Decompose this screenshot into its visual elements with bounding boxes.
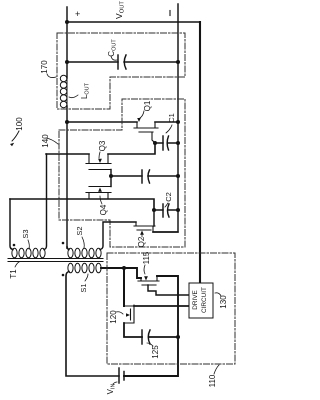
label minus [169,11,171,16]
leader 130 [215,293,221,296]
wire Q3 to C1 node [108,145,155,154]
leader 120 arrow [116,312,123,314]
svg-text:CIRCUIT: CIRCUIT [201,287,208,313]
svg-text:Q2: Q2 [137,236,146,247]
node clamp return [176,335,180,339]
leader Q2 arrow [141,234,143,237]
label VOUT [114,1,126,19]
capacitor C1 [155,136,178,150]
wire S1 right to switch node [101,268,141,278]
label DRIVE CIRCUIT [192,287,208,313]
label Q1 [143,100,152,111]
leader S3 [28,240,29,249]
wire drive input b [134,305,188,307]
battery VIN [119,368,124,383]
svg-text:COUT: COUT [107,39,118,57]
wire S3 to Q3 [46,153,89,155]
wire S3 return to Q4 and C2 [10,199,154,210]
svg-text:T1: T1 [9,269,18,279]
label 120 [109,310,118,324]
svg-text:Q4: Q4 [99,204,108,215]
node Cout plus [65,60,69,64]
wire drive sense line [199,22,201,283]
wire top output link [67,21,200,23]
wire S1 left leg to Vin [66,272,119,377]
leader 110 [214,365,219,374]
label plus [75,9,80,19]
wire negative output rail [153,4,178,232]
leader C1 [166,125,172,133]
inductor LOUT [60,74,67,108]
winding S2 [68,248,101,258]
capacitor gate coupling [111,170,178,183]
label S2 [75,226,84,235]
label Q2 [137,236,146,247]
svg-text:LOUT: LOUT [80,82,91,99]
label 100 [15,117,24,131]
transistor 120 [124,305,134,323]
svg-text:140: 140 [41,134,50,148]
label Q3 [98,140,107,151]
node C1 left [153,141,157,145]
node Cout minus [176,60,180,64]
capacitor C2 [154,204,178,217]
svg-text:DRIVE: DRIVE [192,290,199,310]
leader Q3 arrow [99,152,100,158]
leader 140 [46,138,58,144]
leader C2 [165,203,168,207]
box 140 dash-dot rectifier [59,99,185,247]
svg-text:VOUT: VOUT [114,1,126,19]
node S1 phase dot [62,274,65,277]
capacitor COUT [67,55,178,69]
label 110 [208,374,217,387]
label C1 [167,113,176,123]
svg-text:C1: C1 [167,113,176,123]
wire 115 gate to drive [148,285,188,295]
wire Q1 source [155,121,178,123]
label Q4 [99,204,108,215]
svg-text:C2: C2 [164,192,173,202]
transistor Q2 [134,222,155,232]
wire Q1 drain [67,121,137,123]
leader 100 arrow [12,131,19,141]
winding S1 [68,263,101,273]
wire Q3 Q4 gate link [110,170,112,187]
svg-text:S1: S1 [79,283,88,292]
svg-text:100: 100 [15,117,24,131]
leader 115 arrow [144,265,145,274]
leader S2 [82,237,84,248]
wire clamp cap link [124,323,178,337]
label C2 [164,192,173,202]
node C2 rail [176,208,180,212]
label S3 [21,229,30,238]
leader VIN [113,382,117,384]
svg-text:VIN: VIN [106,384,117,395]
svg-text:+: + [75,9,80,19]
svg-text:170: 170 [40,60,49,74]
node C2 left [152,208,156,212]
transistor 115 [138,277,159,285]
transistor Q1 [134,122,158,143]
label T1 [9,269,18,279]
wire S3 right leg [44,154,47,250]
svg-text:S3: S3 [21,229,30,238]
leader Q4 arrow [100,196,102,204]
label VIN [106,384,117,395]
wire S3 left leg [10,199,13,250]
leader LOUT [69,95,78,98]
leader 170 [47,74,56,78]
wire S2 to Q2 [100,222,136,250]
svg-text:Q3: Q3 [98,140,107,151]
label LOUT [80,82,91,99]
wire C2 node to Q2 [153,210,155,226]
leader S1 [85,274,88,281]
winding S3 [12,248,45,258]
svg-text:110: 110 [208,374,217,387]
node S2 phase dot [62,242,65,245]
label 125 [151,345,160,359]
svg-text:Q1: Q1 [143,100,152,111]
svg-text:130: 130 [219,295,228,309]
wire positive output rail [66,7,68,248]
node gate cap [109,174,113,178]
node rectifier top right [176,120,180,124]
node S3 phase dot [13,244,16,247]
transformer core [8,259,103,262]
transistor Q4 [86,187,111,200]
label S1 [79,283,88,292]
label 130 [219,295,228,309]
svg-text:125: 125 [151,345,160,359]
leader T1 [15,262,19,267]
label COUT [107,39,118,57]
label 115 [142,251,151,264]
transistor Q3 [86,154,111,170]
wire clamp branch down [123,268,125,306]
node clamp branch [122,266,126,270]
wire S2 left leg riser [67,246,69,250]
leader COUT [111,56,117,60]
node gate cap rail [176,174,180,178]
leader 125 [147,343,153,346]
capacitor 125 [142,330,150,344]
drive circuit U130 box [189,283,213,318]
wire 115 source down [124,276,178,376]
leader Q1 arrow [140,111,144,118]
box 110 dash-dot input stage [107,253,235,364]
label 170 [40,60,49,74]
node plus terminal [65,20,69,24]
node C1 right rail [176,141,180,145]
svg-text:S2: S2 [75,226,84,235]
node rectifier top left [65,120,69,124]
label 140 [41,134,50,148]
box 170 dash-dot output filter [57,33,185,109]
wire Q2 source to rail [153,231,178,233]
